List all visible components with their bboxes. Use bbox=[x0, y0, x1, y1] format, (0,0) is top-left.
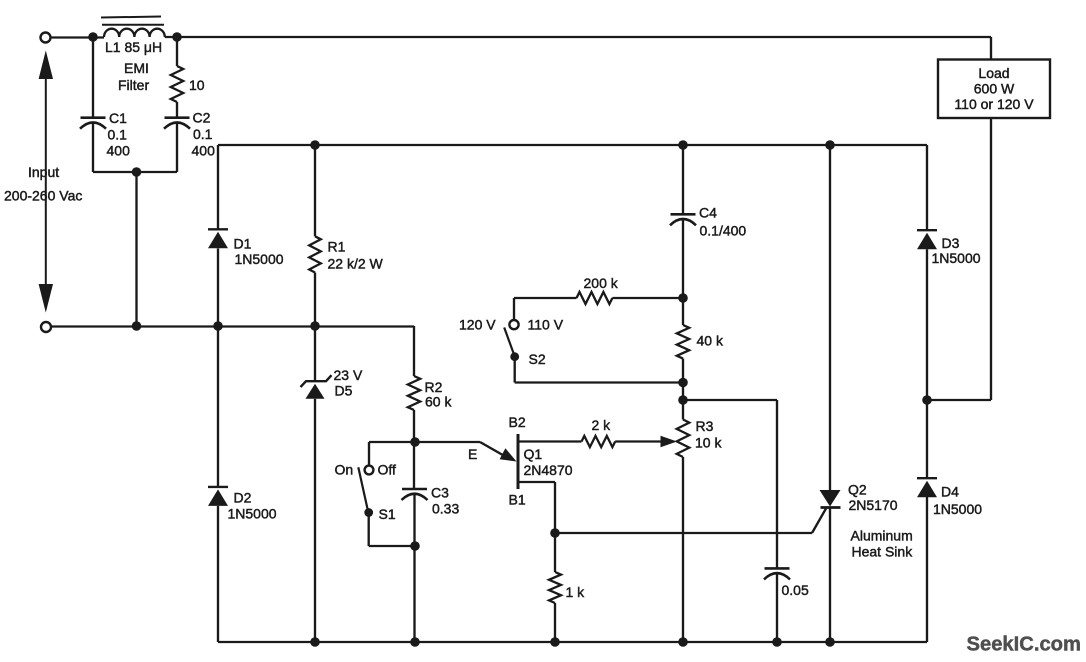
svg-text:1N5000: 1N5000 bbox=[932, 250, 981, 266]
node junction 0.05-bottom-rail bbox=[772, 637, 782, 647]
svg-text:1N5000: 1N5000 bbox=[228, 506, 277, 522]
node junction lower-rail x218 bbox=[213, 321, 223, 331]
svg-text:10 k: 10 k bbox=[695, 435, 722, 451]
svg-text:110 V: 110 V bbox=[528, 317, 564, 333]
svg-text:23 V: 23 V bbox=[334, 367, 363, 383]
svg-text:1 k: 1 k bbox=[566, 584, 586, 600]
svg-text:D3: D3 bbox=[942, 235, 960, 251]
svg-text:Off: Off bbox=[378, 462, 397, 478]
capacitor C3 bbox=[402, 485, 460, 643]
resistor 200k bbox=[514, 275, 683, 304]
svg-text:B2: B2 bbox=[509, 414, 526, 430]
node junction lower-rail x136 bbox=[132, 321, 142, 331]
emitter arrowhead bbox=[468, 446, 517, 462]
svg-text:60 k: 60 k bbox=[425, 394, 452, 410]
wire R3-top to 0.05 column bbox=[683, 400, 777, 568]
svg-text:2 k: 2 k bbox=[592, 417, 612, 433]
svg-text:Q2: Q2 bbox=[848, 482, 867, 498]
svg-text:S1: S1 bbox=[379, 506, 396, 522]
wire D1 to D2 bbox=[217, 326, 219, 487]
svg-text:On: On bbox=[335, 462, 354, 478]
capacitor 0.05 bbox=[764, 568, 809, 642]
svg-text:0.1: 0.1 bbox=[108, 127, 128, 143]
svg-text:120 V: 120 V bbox=[459, 317, 496, 333]
transistor Q1 2N4870 bbox=[509, 414, 582, 533]
wire lower input rail bbox=[51, 325, 414, 327]
svg-text:Filter: Filter bbox=[118, 77, 149, 93]
wire bottom rail bbox=[218, 641, 927, 643]
svg-text:Heat Sink: Heat Sink bbox=[852, 544, 914, 560]
capacitor C1 bbox=[80, 41, 130, 172]
node junction C3-bottom-rail bbox=[410, 637, 420, 647]
svg-text:D5: D5 bbox=[335, 383, 353, 399]
wiper arrowhead into R3 bbox=[661, 436, 678, 448]
wire 200k left riser bbox=[513, 298, 515, 320]
node junction 200k-40k bbox=[678, 293, 688, 303]
node junction EMI-bottom bbox=[132, 167, 142, 177]
svg-text:D4: D4 bbox=[941, 484, 959, 500]
svg-text:1N5000: 1N5000 bbox=[235, 251, 284, 267]
svg-text:C1: C1 bbox=[109, 110, 127, 126]
svg-text:C3: C3 bbox=[431, 485, 449, 501]
svg-text:10: 10 bbox=[189, 77, 205, 93]
svg-text:1N5000: 1N5000 bbox=[933, 501, 982, 517]
input range arrow bbox=[39, 51, 53, 313]
wire top rail left segment bbox=[51, 36, 105, 38]
load box bbox=[938, 60, 1050, 119]
svg-text:R3: R3 bbox=[696, 418, 714, 434]
node junction Q2-top bbox=[825, 140, 835, 150]
node junction R1-top bbox=[310, 140, 320, 150]
resistor R2 bbox=[408, 326, 453, 489]
svg-text:D2: D2 bbox=[234, 490, 252, 506]
wire S1 riser bbox=[369, 442, 415, 465]
wire emitter E bbox=[415, 442, 508, 458]
wire second rail y145 bbox=[218, 144, 927, 146]
svg-text:2N5170: 2N5170 bbox=[849, 497, 898, 513]
node junction Q2-bottom-rail bbox=[825, 637, 835, 647]
diode D3 bbox=[917, 230, 981, 400]
node junction R3-top bbox=[678, 395, 688, 405]
resistor R1 bbox=[309, 145, 383, 326]
node junction C2-top bbox=[172, 32, 182, 42]
capacitor C2 bbox=[164, 110, 215, 173]
node junction D5-bottom-rail bbox=[310, 637, 320, 647]
switch S1 bbox=[335, 462, 416, 547]
wire D1-D2 column upper bbox=[217, 145, 219, 229]
node junction C3-S1 bbox=[410, 541, 420, 551]
svg-text:0.05: 0.05 bbox=[782, 582, 809, 598]
wire EMI filter bottom bbox=[93, 171, 177, 173]
label Input 200-260 Vac bbox=[4, 164, 82, 204]
input terminal T2 (bottom) bbox=[41, 322, 51, 332]
node junction R3-bottom-rail bbox=[678, 637, 688, 647]
svg-text:600 W: 600 W bbox=[974, 81, 1015, 97]
wire EMI-bottom to lower rail bbox=[135, 172, 137, 326]
svg-text:200-260 Vac: 200-260 Vac bbox=[4, 188, 82, 204]
svg-text:C2: C2 bbox=[193, 110, 211, 126]
svg-text:400: 400 bbox=[192, 143, 216, 159]
resistor 10 (EMI damping) bbox=[171, 41, 205, 118]
input terminal T1 (top) bbox=[41, 33, 51, 43]
svg-text:0.1: 0.1 bbox=[193, 126, 213, 142]
svg-text:R1: R1 bbox=[328, 239, 346, 255]
inductor L1 bbox=[101, 17, 165, 56]
node junction lower-rail x315 bbox=[310, 321, 320, 331]
diode D4 bbox=[917, 400, 982, 642]
svg-text:S2: S2 bbox=[529, 351, 546, 367]
svg-text:2N4870: 2N4870 bbox=[524, 462, 573, 478]
switch S2 bbox=[459, 317, 683, 383]
label Aluminum Heat Sink bbox=[851, 528, 914, 560]
wire top rail bbox=[165, 36, 991, 38]
svg-text:B1: B1 bbox=[509, 492, 526, 508]
diode D2 bbox=[208, 487, 277, 642]
node junction C4-top bbox=[678, 140, 688, 150]
svg-text:0.1/400: 0.1/400 bbox=[700, 223, 747, 239]
node junction B1 bbox=[550, 528, 560, 538]
label EMI Filter bbox=[118, 60, 149, 93]
node junction D3-D4-load bbox=[922, 395, 932, 405]
watermark SeekIC.com bbox=[967, 634, 1081, 656]
wire gate B1 to Q2 bbox=[555, 509, 826, 534]
svg-text:EMI: EMI bbox=[124, 60, 149, 76]
zener diode D5 bbox=[301, 326, 363, 642]
svg-text:22 k/2 W: 22 k/2 W bbox=[328, 256, 384, 272]
thyristor Q2 2N5170 bbox=[820, 145, 898, 642]
capacitor C4 bbox=[670, 145, 746, 298]
resistor R3 potentiometer bbox=[677, 400, 723, 642]
node junction R2-bottom bbox=[410, 437, 420, 447]
svg-text:0.33: 0.33 bbox=[432, 501, 459, 517]
svg-text:E: E bbox=[468, 446, 477, 462]
svg-text:110 or 120 V: 110 or 120 V bbox=[954, 96, 1034, 112]
diode D1 bbox=[208, 229, 284, 326]
svg-text:40 k: 40 k bbox=[697, 333, 724, 349]
svg-text:Load: Load bbox=[978, 65, 1009, 81]
svg-text:D1: D1 bbox=[234, 236, 252, 252]
node junction 1k-bottom-rail bbox=[550, 637, 560, 647]
wire D3 column upper bbox=[926, 145, 928, 230]
resistor 40k bbox=[677, 298, 724, 400]
svg-text:200 k: 200 k bbox=[584, 275, 619, 291]
node junction S2-40k bbox=[678, 378, 688, 388]
svg-text:Input: Input bbox=[28, 164, 59, 180]
svg-text:Q1: Q1 bbox=[524, 446, 543, 462]
svg-text:L1 85 μH: L1 85 μH bbox=[105, 39, 162, 55]
wire load drop bbox=[927, 37, 991, 400]
resistor 2k bbox=[582, 417, 662, 447]
svg-text:Aluminum: Aluminum bbox=[851, 528, 913, 544]
node junction C1-top bbox=[88, 32, 98, 42]
resistor 1k bbox=[549, 533, 585, 642]
svg-text:C4: C4 bbox=[699, 205, 717, 221]
svg-text:400: 400 bbox=[107, 143, 131, 159]
svg-text:SeekIC.com: SeekIC.com bbox=[967, 634, 1081, 656]
